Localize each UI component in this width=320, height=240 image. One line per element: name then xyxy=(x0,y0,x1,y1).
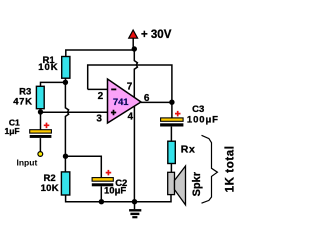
svg-text:1μF: 1μF xyxy=(5,126,20,136)
svg-text:10K: 10K xyxy=(38,62,58,73)
svg-text:100μF: 100μF xyxy=(187,115,219,126)
svg-text:4: 4 xyxy=(128,111,134,122)
svg-text:1K total: 1K total xyxy=(224,145,236,192)
svg-text:7: 7 xyxy=(127,82,133,93)
svg-text:+ 30V: + 30V xyxy=(141,29,172,41)
svg-text:3: 3 xyxy=(96,114,102,125)
svg-text:Rx: Rx xyxy=(181,144,196,156)
svg-text:741: 741 xyxy=(113,97,129,108)
svg-text:6: 6 xyxy=(144,93,150,104)
svg-text:Input: Input xyxy=(17,157,38,167)
svg-text:C3: C3 xyxy=(192,104,204,115)
svg-text:2: 2 xyxy=(98,91,104,102)
svg-text:47K: 47K xyxy=(13,96,33,107)
svg-text:Spkr: Spkr xyxy=(191,171,203,196)
svg-text:10μF: 10μF xyxy=(104,186,126,197)
svg-text:10K: 10K xyxy=(41,183,59,194)
